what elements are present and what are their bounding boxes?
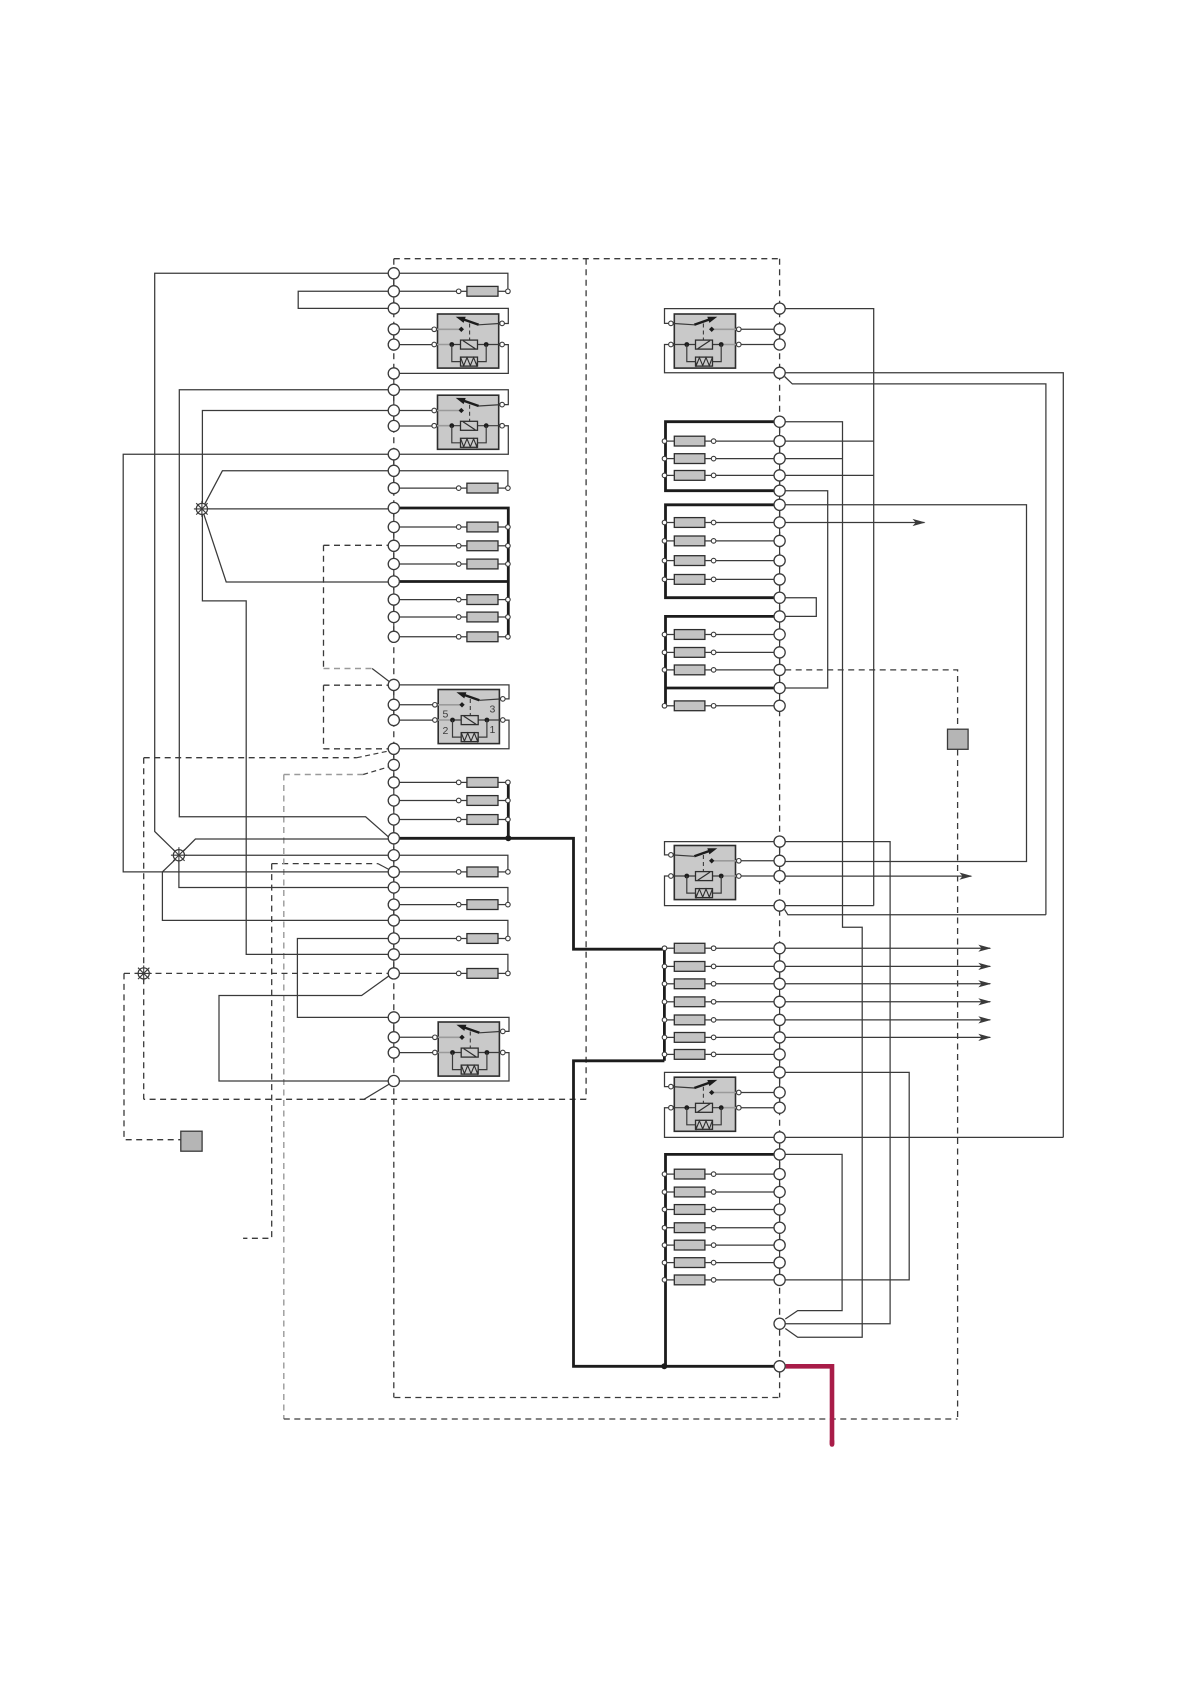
dashed wire to pin C31 (272, 863, 378, 865)
wire R6 to net N1 (785, 440, 874, 442)
thick bus B4 fuse group (666, 1154, 775, 1366)
wire C39 to relay K4 (399, 1036, 432, 1038)
wire R30 arrow out (785, 1019, 990, 1021)
wire link R15-R16 (785, 598, 816, 617)
wire C1 to lamp E2 (155, 273, 389, 851)
fuse F22 (662, 575, 774, 585)
wire R25 to net N1 end (785, 905, 874, 907)
wire loop C10 to relay K2 coil (399, 426, 508, 455)
wire C22 to relay K3 (399, 704, 432, 706)
arrow head R11 (913, 519, 926, 526)
fuse F4 (399, 541, 510, 551)
dashed module divider vertical (585, 259, 587, 1100)
dashed switch boundary top edge (144, 757, 357, 759)
wire R4 to R36 vertical (785, 373, 1063, 1138)
wire relay pin to R34 (741, 1092, 774, 1094)
fuse F17 (662, 454, 774, 464)
fuse F14 (399, 934, 510, 944)
dashed module border bottom edge (394, 1397, 779, 1399)
fuse F13 (399, 900, 510, 910)
wire R28 arrow out (785, 983, 990, 985)
thick main feed C29 to R46 (399, 838, 663, 949)
wire R4 branch to R25 (785, 377, 1046, 915)
wire R25 branch diag (785, 910, 1046, 915)
junction dot at bottom feed (661, 1363, 667, 1369)
arrow head R30 (978, 1016, 991, 1023)
fuse F8 (399, 632, 510, 642)
thick bus B1 relay KA feed (666, 422, 775, 491)
wire R26 arrow out (785, 947, 990, 949)
arrow head R29 (978, 998, 991, 1005)
wire loop R36 to relay KC coil (665, 1108, 775, 1138)
dashed diagonal into pin C25 (363, 767, 389, 775)
maroon wire cap (830, 1441, 835, 1445)
dashed riser to connector S1 (957, 750, 959, 1420)
fuse F16 (662, 436, 774, 446)
relay K7 (669, 1077, 742, 1131)
gray dashed vertical (net V2) (283, 775, 285, 1420)
connector left column solid links (393, 273, 395, 1052)
gray dashed wire toward pin C25 (284, 774, 363, 776)
arrow head R24 (959, 873, 972, 880)
wire loop C2-C3 (298, 291, 388, 308)
junction dot at C29 bus (505, 835, 511, 841)
wire R37 to R45 (785, 1154, 842, 1319)
wire relay pin to R23 (741, 860, 774, 862)
wire C4 to relay K1 (399, 328, 432, 330)
dashed lamp E3 wire to pin C37 (124, 972, 388, 974)
thick fuse bus F9-F11 (507, 782, 510, 838)
wire R9 to R20 (785, 491, 828, 688)
connector pins right column R1-R46 (774, 303, 785, 1372)
relay K6 (669, 846, 742, 900)
wire loop R25 to relay KB coil (665, 876, 775, 906)
wire R31 arrow out (785, 1036, 990, 1038)
fuse F20 (662, 536, 774, 546)
fuse F2 (399, 483, 510, 493)
wire C9 to relay K2 coil (399, 425, 432, 427)
ground G2 gray square (181, 1131, 202, 1151)
wire loop C41 to relay K4 coil (399, 1053, 509, 1081)
fuse F10 (399, 796, 510, 806)
wire R7 to net R5 (785, 458, 842, 460)
svg-text:1: 1 (490, 724, 496, 736)
wire R36 to R4 end (785, 1136, 1063, 1138)
relay K2 (432, 395, 505, 449)
wire loop C34 to fuse F14 (399, 920, 508, 936)
indicator lamp E1 (194, 501, 210, 517)
dashed bottom bus (net V2) (284, 1418, 958, 1420)
wire loop R4 to relay KA coil (665, 345, 775, 373)
maroon battery wire at R46 (786, 1366, 832, 1444)
dashed diagonal into pin C31 (378, 864, 389, 870)
wire R5 to R45 via jog (785, 422, 862, 1337)
wire C41 to pin C37 branch (219, 976, 389, 1081)
arrow head R27 (978, 963, 991, 970)
fuse F15 (399, 969, 510, 979)
fuse F35 (662, 1187, 774, 1197)
relay K5 (669, 314, 742, 368)
fuse F31 (662, 1015, 774, 1025)
wire lamp E2 to pin C30 (185, 854, 389, 856)
wire loop C7 to relay K2 pin (399, 390, 508, 405)
relay K1 (432, 314, 505, 368)
dashed diagonal to pin C21 (372, 669, 389, 682)
wire C8 to pin C36 (202, 411, 388, 955)
relay K4 (433, 1022, 506, 1076)
thick bus B3 fuse group (666, 616, 775, 705)
wire relay pin to R24 (741, 875, 774, 877)
connector pins left column C1-C41 (388, 268, 399, 1087)
wire loop C3 to relay K1 pin (399, 308, 508, 323)
fuse F24 (662, 648, 774, 658)
fuse F5 (399, 559, 510, 569)
wire loop C24 to relay K3 coil (399, 720, 509, 749)
fuse F33 (662, 1050, 774, 1060)
wire loop C11 to fuse F2 (399, 471, 508, 486)
wire R29 arrow out (785, 1001, 990, 1003)
dashed lamp E3 drop to ground (124, 973, 181, 1139)
fuse F23 (662, 630, 774, 640)
wire loop C30 to fuse F12 (399, 855, 508, 869)
dashed diagonal to pin C24 (357, 751, 389, 758)
dashed connector column right (node X2) (779, 259, 781, 1398)
dashed rect A top edge (324, 544, 389, 546)
thick bus B2 fuse group (666, 505, 775, 598)
wire loop R1 to relay KA pin (665, 309, 775, 324)
wire lamp E2 tap to pin C34 (162, 860, 388, 921)
fuse F12 (399, 867, 510, 877)
wire R8 to net N1 (785, 474, 874, 476)
thick feed wire from C17 (399, 580, 508, 583)
fuse F25 (662, 665, 774, 675)
fuse F38 (662, 1240, 774, 1250)
wire R11 arrow out (785, 522, 924, 524)
dashed wire R19 to connector S1 (785, 670, 957, 729)
wire R33 to R44 (785, 1072, 909, 1280)
wire lamp E1 to pin C11 (205, 471, 389, 505)
wire loop R33 to relay KC pin (665, 1072, 775, 1086)
gray dashed rect A bottom edge (324, 668, 373, 670)
wire lamp E2 stub to pin C32 (179, 861, 388, 888)
wire loop C1 to fuse F1 (399, 273, 508, 289)
indicator lamp E3 (136, 965, 152, 981)
wire loop C38 to relay K4 pin (399, 1017, 509, 1031)
wire C35 to C38 vertical (297, 939, 388, 1018)
arrow head R28 (978, 980, 991, 987)
thick bus fuses F21-F27 (663, 951, 666, 1061)
fuse F30 (662, 997, 774, 1007)
dashed stub vertical (net V1) (243, 864, 272, 1239)
dashed switch boundary left vertical (143, 758, 145, 1100)
wire R22 to R45 (785, 842, 890, 1324)
connector S1 gray square (948, 729, 969, 749)
fuse F26 (662, 701, 774, 711)
fuse F11 (399, 815, 510, 825)
fuse F27 (662, 943, 774, 953)
dashed diagonal to pin C41 (364, 1084, 390, 1099)
fuse F9 (399, 778, 510, 788)
wire loop R22 to relay KB pin (665, 842, 775, 855)
wire C8 to relay K2 (399, 410, 432, 412)
connector right column solid links (779, 329, 781, 1280)
fuse F40 (662, 1275, 774, 1285)
dashed connector column left (node X1) (393, 259, 395, 1398)
wire C5 to relay K1 coil (399, 344, 432, 346)
wire R24 arrow out (785, 875, 971, 877)
fuse F18 (662, 471, 774, 481)
fuse F6 (399, 595, 510, 605)
fuse F34 (662, 1169, 774, 1179)
fuse F28 (662, 962, 774, 972)
wire loop C21 to relay K3 pin (399, 685, 509, 699)
fuse F19 (662, 518, 774, 528)
wire loop C6 to relay K1 coil (399, 345, 508, 374)
svg-text:5: 5 (443, 709, 449, 721)
dashed rect B left edge (323, 685, 325, 749)
wire R1 to net N1 (785, 309, 874, 906)
fuse F1 (399, 286, 510, 296)
dashed rect A left edge (323, 545, 325, 668)
fuse F36 (662, 1205, 774, 1215)
thick bus B3 tap to R20 (666, 687, 775, 690)
wire C23 to relay K3 coil (399, 719, 432, 721)
fuse F32 (662, 1033, 774, 1043)
relay K3 with pin numbers 5 3 2 1 (433, 690, 506, 744)
svg-text:3: 3 (490, 704, 496, 716)
svg-text:2: 2 (443, 725, 449, 737)
thick feed wire from C13 (399, 508, 508, 637)
wire lamp E1 to pin C13 (208, 508, 389, 510)
dashed boundary bottom horizontal (144, 1098, 586, 1100)
arrow head R31 (978, 1034, 991, 1041)
wire loop C32 to fuse F13 (399, 888, 508, 903)
wire relay pin to R35 (741, 1107, 774, 1109)
dashed module border top edge (394, 258, 780, 260)
wire R27 arrow out (785, 965, 990, 967)
dashed rect B top edge (324, 684, 389, 686)
fuse F29 (662, 979, 774, 989)
wire loop C36 to fuse F15 (399, 954, 508, 971)
fuse F37 (662, 1223, 774, 1233)
arrow head R26 (978, 945, 991, 952)
fuse F21 (662, 556, 774, 566)
wire C10 to pin C31 (123, 454, 388, 872)
wire lamp E1 to pin C17 (204, 514, 388, 582)
thick main feed lower run (574, 1061, 775, 1367)
wire C40 to relay K4 coil (399, 1052, 432, 1054)
wire relay pin to R2 (741, 328, 774, 330)
wire lamp E2 to pin C29 (183, 839, 388, 852)
wire relay pin to R3 (741, 344, 774, 346)
dashed rect B bottom edge (324, 748, 389, 750)
fuse F3 (399, 522, 510, 532)
indicator lamp E2 (171, 847, 187, 863)
wire R10 to R23 (785, 505, 1026, 862)
fuse F7 (399, 612, 510, 622)
wire C7 to pin C29 (179, 390, 389, 838)
fuse F39 (662, 1258, 774, 1268)
